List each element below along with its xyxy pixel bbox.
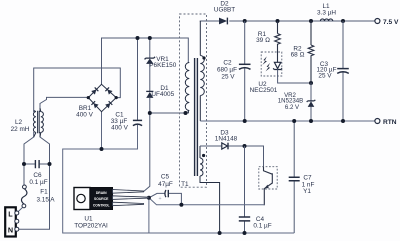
capacitor C4	[239, 216, 272, 230]
optocoupler U2 phototransistor	[264, 167, 273, 206]
transformer T1 dashed box	[180, 14, 207, 188]
wire primary DC+ rail	[102, 38, 189, 84]
wire source column	[148, 198, 150, 233]
svg-text:T1: T1	[181, 181, 189, 188]
transformer T1 core	[195, 58, 198, 176]
node control pin	[147, 196, 151, 200]
svg-text:Y1: Y1	[303, 188, 311, 195]
optocoupler U2 LED	[250, 56, 282, 94]
wire AC loop lower	[40, 97, 88, 112]
svg-text:UF4005: UF4005	[151, 91, 174, 98]
node C4 bottom	[243, 231, 247, 235]
svg-text:7.5 V: 7.5 V	[383, 19, 399, 26]
svg-text:6.2 V: 6.2 V	[285, 104, 300, 111]
capacitor C7	[289, 175, 315, 196]
svg-text:68 Ω: 68 Ω	[291, 51, 305, 58]
node C5 right	[179, 203, 183, 207]
svg-text:C5: C5	[161, 174, 170, 181]
svg-text:680 µF: 680 µF	[217, 67, 237, 74]
diode D3	[215, 129, 238, 149]
svg-text:39 Ω: 39 Ω	[256, 37, 270, 44]
svg-text:SOURCE: SOURCE	[94, 197, 109, 201]
wire C1 top	[137, 38, 139, 120]
svg-text:F1: F1	[40, 189, 48, 196]
resistor R2	[291, 21, 314, 83]
svg-text:RTN: RTN	[383, 119, 397, 126]
svg-text:TOP202YAI: TOP202YAI	[74, 222, 108, 229]
svg-text:1N4148: 1N4148	[215, 135, 238, 142]
capacitor C6	[29, 160, 47, 186]
svg-text:L2: L2	[15, 119, 23, 126]
wire C7 column	[293, 121, 295, 233]
wire top secondary rail	[200, 20, 375, 22]
node C6 right	[48, 162, 52, 166]
wire D3 row	[200, 146, 264, 167]
wire C5 row	[149, 193, 182, 204]
inductor L1	[317, 3, 336, 21]
node C3 bottom	[341, 119, 345, 123]
capacitor C5	[158, 174, 173, 202]
node bias phase dot	[202, 154, 205, 157]
wire fuse to L terminal	[18, 207, 23, 212]
node bridge negative	[100, 147, 104, 151]
node VR2 bottom	[309, 119, 313, 123]
svg-text:25 V: 25 V	[318, 72, 332, 79]
transformer primary winding	[185, 63, 189, 114]
wire AC loop upper	[34, 68, 121, 112]
node C2 top	[243, 19, 247, 23]
zener VR1	[145, 56, 177, 69]
svg-text:3.3 µH: 3.3 µH	[317, 10, 336, 17]
wire choke bottom left to C6	[24, 132, 34, 185]
wire C3 column	[342, 21, 344, 121]
wire C2 column	[244, 21, 246, 121]
capacitor C2	[217, 59, 251, 80]
node primary bottom	[184, 111, 188, 115]
fuse F1	[21, 185, 55, 208]
node clamp top	[148, 36, 152, 40]
node R2 top	[309, 19, 313, 23]
node R2 bottom junction	[309, 81, 313, 85]
svg-text:P6KE150: P6KE150	[149, 62, 176, 69]
optocoupler U2 LED dashed box	[261, 52, 282, 76]
node C7 top	[292, 119, 296, 123]
node C2 bottom	[243, 119, 247, 123]
svg-text:25 V: 25 V	[221, 74, 235, 81]
optocoupler U2 transistor dashed box	[259, 167, 277, 189]
transformer bias winding	[200, 146, 220, 233]
svg-text:22 mH: 22 mH	[11, 126, 30, 133]
inductor L2 choke	[11, 108, 44, 137]
IC U1 TOP202YAI package	[74, 188, 149, 230]
bridge BR1	[76, 84, 118, 118]
svg-text:UG8BT: UG8BT	[214, 7, 235, 14]
zener VR2	[278, 83, 316, 121]
svg-text:0.1 µF: 0.1 µF	[253, 223, 271, 230]
capacitor C1	[111, 112, 142, 132]
wire C6 row	[24, 163, 50, 165]
svg-text:L: L	[8, 210, 13, 219]
terminal RTN	[375, 119, 397, 126]
node C3 top	[341, 19, 345, 23]
svg-text:NEC2501: NEC2501	[250, 87, 278, 94]
AC connector	[5, 207, 19, 236]
svg-text:0.1 µF: 0.1 µF	[29, 179, 47, 186]
resistor R1	[256, 21, 280, 62]
svg-text:DRAIN: DRAIN	[96, 191, 107, 195]
svg-text:CONTROL: CONTROL	[93, 203, 110, 207]
wire C4 column	[244, 146, 246, 233]
wire RTN rail	[200, 120, 375, 122]
svg-text:C2: C2	[223, 59, 232, 66]
wire choke bottom right to N	[19, 132, 50, 229]
wire clamp to primary bottom	[150, 110, 189, 113]
node secondary phase dot	[202, 56, 205, 59]
svg-text:3.15 A: 3.15 A	[36, 197, 55, 204]
diode D2	[214, 0, 235, 24]
capacitor C3	[316, 61, 348, 80]
node C1 top	[136, 36, 140, 40]
wire LED bottom to zener node	[278, 70, 311, 84]
svg-text:47µF: 47µF	[158, 181, 173, 188]
terminal 7.5V	[375, 19, 399, 26]
node clamp bottom	[148, 111, 152, 115]
diode D1	[146, 85, 174, 98]
wire bridge negative to ground loop	[63, 112, 295, 233]
svg-text:400 V: 400 V	[111, 125, 128, 132]
wire control rail	[149, 198, 264, 205]
transformer secondary winding	[200, 21, 204, 121]
node D3 cathode	[243, 144, 247, 148]
node R1 top	[276, 19, 280, 23]
node C6 left	[22, 162, 26, 166]
node bias return	[218, 231, 222, 235]
svg-text:N: N	[8, 226, 13, 235]
wire clamp column and drain	[144, 38, 150, 192]
svg-text:400 V: 400 V	[76, 112, 93, 119]
svg-text:+: +	[158, 196, 161, 202]
